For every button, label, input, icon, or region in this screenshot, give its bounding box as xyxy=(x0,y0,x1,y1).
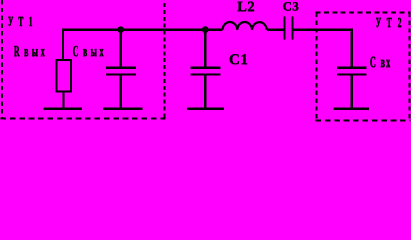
left dashed box right edge xyxy=(164,3,166,119)
resistor Rвых body xyxy=(57,60,71,92)
wire: Свых top lead xyxy=(119,30,121,67)
node junction dot at Свых tap xyxy=(117,26,124,33)
capacitor Свх bottom plate xyxy=(337,73,367,75)
node junction dot at C1 tap xyxy=(202,26,209,33)
wire: Rвых top lead corner + top rail to L2 xyxy=(63,30,223,60)
capacitor Свых bottom plate xyxy=(106,73,136,75)
label УТ1 (transistor VT1) xyxy=(8,17,32,26)
capacitor C3 right plate xyxy=(292,17,294,40)
label Rвых xyxy=(14,46,45,56)
label Свх xyxy=(370,57,390,68)
right dashed box bottom edge xyxy=(316,119,411,121)
wire: Rвых bottom lead xyxy=(62,92,64,109)
label L2 xyxy=(237,2,254,12)
capacitor Свх top plate xyxy=(337,66,367,69)
common bar under Свых xyxy=(103,107,143,110)
wire: L2 to C3 xyxy=(267,28,284,30)
wire: C1 bottom lead xyxy=(204,75,206,109)
common bar under C1 xyxy=(187,107,224,110)
wire: Свх bottom lead xyxy=(351,75,353,109)
right dashed box right edge xyxy=(408,13,410,121)
left dashed box left edge (VT1 output equivalent circuit) xyxy=(1,0,3,119)
wire: C3 to Свх corner lead xyxy=(294,30,352,67)
right dashed box top edge (VT2 input) xyxy=(316,12,411,14)
capacitor Свых top plate xyxy=(106,66,136,69)
label Свых xyxy=(73,46,103,56)
wire: C1 top lead xyxy=(204,30,206,67)
capacitor C1 bottom plate xyxy=(191,73,221,75)
left dashed box bottom edge xyxy=(1,117,166,119)
wire: Свых bottom lead xyxy=(119,75,121,109)
label УТ2 (transistor VT2) xyxy=(376,18,401,27)
capacitor C3 left plate xyxy=(283,17,285,40)
label C3 xyxy=(283,2,298,10)
common bar under Rвых xyxy=(43,107,82,110)
right dashed box left edge xyxy=(316,13,318,121)
inductor L2 (three arcs) xyxy=(223,22,267,30)
common bar under Свх xyxy=(333,107,369,110)
capacitor C1 top plate xyxy=(191,66,221,69)
label C1 xyxy=(230,54,247,64)
